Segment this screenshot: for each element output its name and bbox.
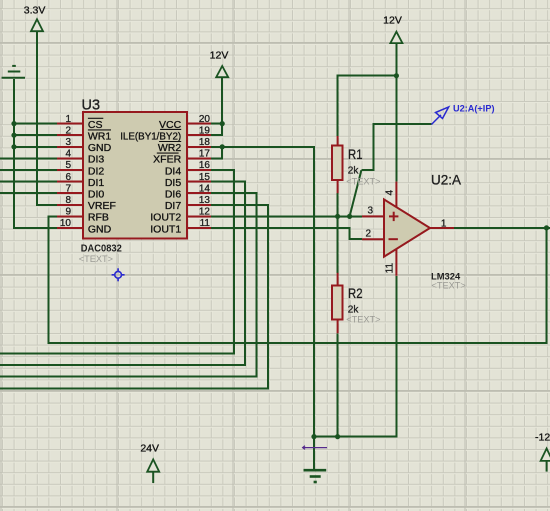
svg-text:12V: 12V bbox=[383, 15, 402, 27]
wire pin12 IOUT2 to op-amp +input bbox=[211, 215, 362, 217]
svg-text:R1: R1 bbox=[348, 147, 363, 162]
svg-text:GND: GND bbox=[88, 223, 112, 235]
op-amp U2:A input stub pin3 bbox=[362, 215, 384, 217]
node R1/R2/+input bbox=[335, 214, 340, 219]
svg-text:<TEXT>: <TEXT> bbox=[346, 177, 380, 187]
svg-text:18: 18 bbox=[199, 137, 211, 148]
wire pin7 DI0 to left edge bbox=[0, 192, 57, 194]
chip U3 left pin numbers bbox=[60, 114, 72, 229]
probe arrow shaft bbox=[431, 115, 441, 125]
op-amp U2:A power stub pin4 bbox=[395, 182, 397, 208]
chip U3 left pin names bbox=[88, 119, 116, 235]
chip U3 pin stubs right bbox=[187, 124, 211, 228]
svg-text:ILE(BY1/BY2): ILE(BY1/BY2) bbox=[120, 131, 181, 143]
svg-text:2k: 2k bbox=[348, 166, 360, 177]
node pin1/ground rail bbox=[11, 121, 16, 126]
op-amp U2:A plus sign bbox=[389, 212, 398, 221]
svg-text:7: 7 bbox=[65, 183, 71, 194]
svg-text:DI0: DI0 bbox=[88, 189, 105, 201]
chip U3 right pin numbers bbox=[199, 114, 211, 229]
svg-text:VREF: VREF bbox=[88, 200, 116, 212]
svg-text:DI2: DI2 bbox=[88, 165, 105, 177]
chip U3 pin stubs left bbox=[57, 124, 83, 228]
svg-text:DI1: DI1 bbox=[88, 177, 105, 189]
svg-text:GND: GND bbox=[88, 142, 112, 154]
resistor R2 bottom stub bbox=[337, 320, 339, 334]
op-amp U2:A minus sign bbox=[389, 238, 398, 240]
wire pin20 VCC bbox=[211, 123, 222, 125]
power 12V (left, over U3) bbox=[210, 49, 229, 77]
svg-text:DI5: DI5 bbox=[165, 177, 182, 189]
svg-text:20: 20 bbox=[199, 114, 211, 125]
wire pin15 DI5 loop bbox=[0, 182, 245, 365]
node pin20/12V bbox=[220, 121, 225, 126]
power 12V (right, over op-amp) bbox=[383, 15, 402, 43]
chip U3 origin crosshair bbox=[112, 268, 125, 281]
svg-text:6: 6 bbox=[65, 172, 71, 183]
wire pin14 DI6 loop bbox=[0, 193, 257, 376]
svg-text:<TEXT>: <TEXT> bbox=[346, 314, 380, 324]
op-amp U2:A power stub pin11 bbox=[395, 248, 397, 276]
svg-text:19: 19 bbox=[199, 125, 211, 136]
svg-text:10: 10 bbox=[60, 218, 72, 229]
overline WR2 bbox=[159, 141, 181, 143]
ground (bottom, under R2 rail) bbox=[304, 470, 327, 482]
power -12V (bottom right, clipped) bbox=[535, 431, 550, 471]
svg-text:<TEXT>: <TEXT> bbox=[432, 281, 466, 291]
purple terminal mark near bottom ground bbox=[303, 446, 327, 450]
resistor R2 top stub bbox=[337, 273, 339, 286]
svg-text:R2: R2 bbox=[348, 286, 363, 301]
svg-text:12: 12 bbox=[199, 207, 211, 218]
wire R1 bottom to +input node bbox=[337, 193, 339, 216]
wire pin11 IOUT1 to op-amp -input bbox=[211, 228, 362, 239]
chip U3 overlines bbox=[88, 118, 181, 153]
svg-text:4: 4 bbox=[65, 149, 71, 160]
svg-text:5: 5 bbox=[65, 160, 71, 171]
wire 3.3V to pin8 VREF bbox=[37, 31, 57, 205]
node ground rail R2 bbox=[335, 434, 340, 439]
svg-text:WR1: WR1 bbox=[88, 131, 111, 143]
svg-text:13: 13 bbox=[199, 195, 211, 206]
chip U3 right pin names bbox=[120, 119, 181, 235]
wire R2 bottom to ground rail bbox=[337, 333, 339, 436]
resistor R1 top stub bbox=[337, 136, 339, 145]
wire 12V branch to R1 top bbox=[338, 76, 397, 136]
svg-text:3.3V: 3.3V bbox=[24, 4, 46, 16]
svg-text:9: 9 bbox=[65, 207, 71, 218]
svg-text:WR2: WR2 bbox=[158, 142, 181, 154]
svg-text:IOUT2: IOUT2 bbox=[150, 212, 181, 224]
wire pin1 CS to node bbox=[14, 123, 57, 125]
svg-text:DI4: DI4 bbox=[165, 165, 182, 177]
svg-text:DI3: DI3 bbox=[88, 154, 105, 166]
svg-text:11: 11 bbox=[200, 218, 211, 229]
svg-text:U2:A: U2:A bbox=[431, 172, 461, 187]
svg-text:2: 2 bbox=[365, 228, 371, 239]
resistor R1 body bbox=[332, 145, 343, 180]
op-amp U2:A output stub pin1 bbox=[430, 227, 454, 229]
power 24V (bottom) bbox=[140, 443, 159, 483]
svg-text:3: 3 bbox=[367, 206, 373, 217]
wire diagonal from +input node to probe bbox=[350, 170, 362, 216]
wire +input probe diagonal bbox=[361, 124, 431, 170]
node pin3/ground rail bbox=[11, 144, 16, 149]
svg-text:24V: 24V bbox=[140, 443, 159, 455]
overline XFER bbox=[157, 152, 179, 154]
node pin18/pin17 bbox=[220, 144, 225, 149]
svg-text:U3: U3 bbox=[82, 98, 101, 114]
op-amp U2:A input stub pin2 bbox=[362, 238, 384, 240]
svg-text:IOUT1: IOUT1 bbox=[150, 223, 181, 235]
svg-text:14: 14 bbox=[199, 183, 211, 194]
node 12V/R1 branch bbox=[394, 73, 399, 78]
svg-text:1: 1 bbox=[441, 218, 447, 229]
svg-text:DI7: DI7 bbox=[165, 200, 182, 212]
node ground rail left bbox=[311, 434, 316, 439]
svg-text:11: 11 bbox=[385, 262, 396, 273]
svg-text:DAC0832: DAC0832 bbox=[81, 242, 122, 254]
svg-text:2: 2 bbox=[65, 125, 71, 136]
wire +input node down to R2 top bbox=[337, 216, 339, 272]
overline WR1 bbox=[88, 129, 111, 131]
probe arrow open head bbox=[436, 107, 449, 119]
svg-text:4: 4 bbox=[385, 190, 396, 196]
overline BY2 bbox=[160, 128, 181, 130]
node +input/probe diagonal bbox=[347, 214, 352, 219]
wire ground rail stem to ground symbol bbox=[313, 437, 315, 471]
svg-text:-12V: -12V bbox=[535, 431, 550, 443]
wire pin16 DI4 loop bbox=[0, 170, 234, 354]
svg-text:8: 8 bbox=[65, 195, 71, 206]
node output/feedback bbox=[544, 225, 549, 230]
overline CS bbox=[88, 117, 103, 119]
svg-text:CS: CS bbox=[88, 119, 103, 131]
resistor R1 bottom stub bbox=[337, 180, 339, 193]
op-amp U2:A triangle body bbox=[384, 199, 430, 256]
chip U3 body bbox=[83, 112, 187, 239]
wire pin4 DI3 to left edge bbox=[0, 157, 57, 159]
wire 12V right stem to op-amp pin4 bbox=[395, 43, 397, 182]
svg-text:<TEXT>: <TEXT> bbox=[79, 254, 113, 264]
power 3.3V bbox=[24, 4, 46, 31]
wire pin13 DI7 loop bbox=[0, 205, 268, 389]
wire pin9 RFB feedback bus to op-amp output bbox=[49, 216, 547, 343]
wire pin17 XFER tie bbox=[211, 147, 222, 159]
svg-text:15: 15 bbox=[199, 172, 211, 183]
wire op-amp pin11 down to ground rail bbox=[314, 276, 396, 437]
wire op-amp output to right bbox=[454, 227, 550, 229]
ground (top left, inverted) bbox=[2, 66, 25, 78]
resistor R2 body bbox=[332, 285, 343, 319]
svg-text:12V: 12V bbox=[210, 49, 229, 61]
svg-text:U2:A(+IP): U2:A(+IP) bbox=[453, 103, 495, 114]
wire pin6 DI1 to left edge bbox=[0, 181, 57, 183]
wire pin3 GND to node bbox=[14, 146, 57, 148]
svg-text:3: 3 bbox=[65, 137, 71, 148]
wire pin2 WR1 to node bbox=[14, 134, 57, 136]
node pin2/ground rail bbox=[11, 133, 16, 138]
wire 12V left stem to pin20/pin19 bbox=[211, 77, 222, 135]
svg-text:DI6: DI6 bbox=[165, 189, 182, 201]
svg-text:XFER: XFER bbox=[153, 154, 181, 166]
wire pin18 WR2 to ground rail bbox=[211, 147, 314, 437]
wire pin5 DI2 to left edge bbox=[0, 169, 57, 171]
svg-text:RFB: RFB bbox=[88, 212, 109, 224]
wire ground stem left (x=14, ground to pin10 row) bbox=[14, 79, 57, 228]
svg-text:16: 16 bbox=[199, 160, 211, 171]
svg-text:17: 17 bbox=[199, 149, 211, 160]
svg-text:1: 1 bbox=[65, 114, 71, 125]
